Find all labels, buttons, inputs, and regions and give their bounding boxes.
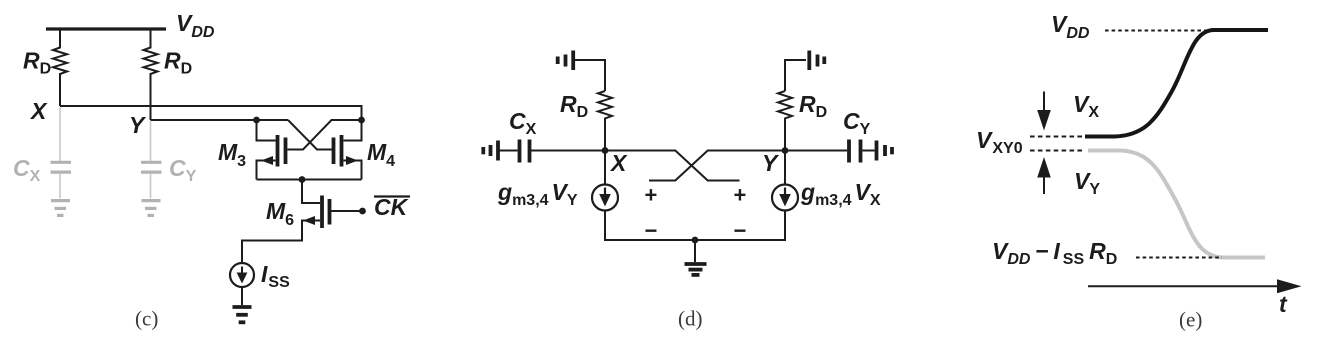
wire top-right to RD [785, 60, 806, 91]
node dot X-M4 drain [358, 117, 365, 124]
current source ISS [230, 263, 254, 287]
wire bottom rail (d) [605, 210, 785, 240]
current source gm VX [772, 151, 798, 211]
svg-text:ISS: ISS [261, 261, 290, 291]
transistor M3 [257, 120, 286, 180]
wire cross-couple diagonal B [288, 120, 362, 150]
svg-text:M6: M6 [266, 198, 294, 229]
current source gm VY [592, 151, 618, 211]
svg-text:Y: Y [129, 112, 147, 138]
svg-text:t: t [1279, 291, 1288, 317]
wire M6 gate [331, 210, 360, 212]
wire cross (d) from X [605, 151, 740, 181]
wire top-left to RD [575, 60, 606, 91]
svg-text:VDD: VDD [176, 10, 215, 41]
svg-text:(d): (d) [678, 307, 703, 331]
svg-text:VDD−ISSRD: VDD−ISSRD [992, 238, 1117, 268]
svg-text:CX: CX [509, 108, 537, 138]
ac ground top-right [809, 51, 824, 71]
node dot X (d) [602, 147, 609, 154]
wire ISS to ground [241, 287, 243, 306]
wire cross-couple diagonal A [288, 120, 334, 150]
capacitor CX (d) [499, 140, 530, 163]
svg-text:(e): (e) [1179, 308, 1202, 332]
svg-text:RD: RD [164, 48, 192, 78]
transistor M6 [242, 180, 330, 265]
svg-text:X: X [29, 98, 48, 124]
svg-text:(c): (c) [135, 307, 158, 331]
transistor M4 [334, 120, 362, 180]
node dot Y-M3 drain [253, 117, 260, 124]
svg-text:Y: Y [762, 150, 780, 176]
ac ground left [483, 141, 498, 161]
label CK with overline [374, 194, 410, 220]
ac ground top-left [558, 51, 574, 71]
node dot tail [299, 176, 306, 183]
resistor RD left [53, 29, 67, 106]
svg-text:RD: RD [23, 48, 51, 78]
svg-text:M4: M4 [367, 139, 395, 170]
curve VX [1085, 30, 1268, 137]
arrow down to VX level [1037, 92, 1051, 131]
svg-text:VX: VX [1073, 91, 1099, 121]
node dot Y (d) [782, 147, 789, 154]
gray capacitor CX [51, 162, 72, 198]
svg-text:CY: CY [169, 155, 197, 185]
svg-text:CY: CY [843, 108, 871, 138]
resistor RD (d right) [778, 91, 792, 151]
wire CX to node X [531, 150, 605, 152]
ground (c) [233, 307, 252, 322]
wire node Y horizontal [151, 119, 289, 121]
gray ground CY [142, 201, 161, 216]
svg-text:+: + [734, 183, 747, 208]
svg-text:+: + [645, 183, 658, 208]
svg-text:CK: CK [374, 194, 409, 220]
wire common source rail [257, 179, 362, 181]
gray wire X to CX [59, 107, 61, 161]
resistor RD right [144, 29, 158, 120]
dotted line VDD-ISSRD level [1136, 257, 1222, 259]
wire node X horizontal [60, 106, 362, 120]
svg-text:VDD: VDD [1051, 11, 1090, 42]
svg-text:RD: RD [560, 91, 588, 121]
ground (d) [685, 264, 707, 275]
VDD rail [46, 27, 166, 30]
svg-text:CX: CX [13, 155, 41, 185]
svg-text:VXY0: VXY0 [976, 127, 1023, 157]
svg-text:gm3,4VY: gm3,4VY [497, 179, 578, 209]
ac ground right [877, 141, 893, 161]
svg-text:gm3,4VX: gm3,4VX [800, 179, 881, 209]
node dot bottom (d) [692, 237, 699, 244]
wire Y to CY (d) [785, 150, 847, 152]
resistor RD (d left) [598, 91, 612, 151]
time axis [1088, 279, 1302, 293]
dotted line VY level [1030, 150, 1082, 152]
dotted line VDD [1105, 30, 1213, 32]
gray wire Y to CY [150, 121, 152, 161]
wire to ground (d) [694, 240, 696, 262]
svg-text:X: X [609, 150, 628, 176]
dotted line VX level [1030, 136, 1082, 138]
curve VY [1088, 151, 1265, 258]
svg-text:RD: RD [799, 91, 827, 121]
capacitor CY (d) [849, 140, 875, 163]
svg-text:VY: VY [1074, 168, 1100, 198]
gray ground CX [51, 201, 70, 216]
svg-text:M3: M3 [218, 139, 246, 170]
gray capacitor CY [141, 162, 162, 198]
node dot CK [359, 208, 366, 215]
arrow up to VY level [1037, 157, 1051, 194]
wire cross (d) from Y [649, 151, 785, 181]
